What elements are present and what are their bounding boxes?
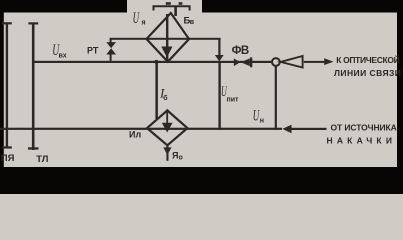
svg-text:ОТ ИСТОЧНИКА: ОТ ИСТОЧНИКА (331, 123, 397, 133)
svg-text:ТЛ: ТЛ (36, 154, 49, 165)
svg-text:я: я (142, 20, 146, 27)
svg-text:U: U (133, 10, 140, 27)
svg-text:пит: пит (227, 97, 240, 104)
svg-text:вх: вх (59, 52, 67, 59)
svg-text:НАКАЧКИ: НАКАЧКИ (327, 136, 397, 146)
svg-text:ЛИНИИ СВЯЗИ: ЛИНИИ СВЯЗИ (334, 68, 401, 78)
svg-text:о: о (179, 155, 183, 162)
svg-text:ФВ: ФВ (232, 45, 249, 57)
svg-text:Я: Я (172, 151, 178, 161)
svg-text:б: б (163, 94, 168, 102)
svg-text:н: н (260, 117, 264, 124)
svg-text:в: в (190, 19, 195, 26)
svg-text:ПЯ: ПЯ (1, 153, 15, 164)
svg-text:РТ: РТ (87, 46, 99, 56)
svg-text:К ОПТИЧЕСКОЙ: К ОПТИЧЕСКОЙ (336, 54, 399, 65)
svg-text:Ил: Ил (129, 130, 141, 140)
